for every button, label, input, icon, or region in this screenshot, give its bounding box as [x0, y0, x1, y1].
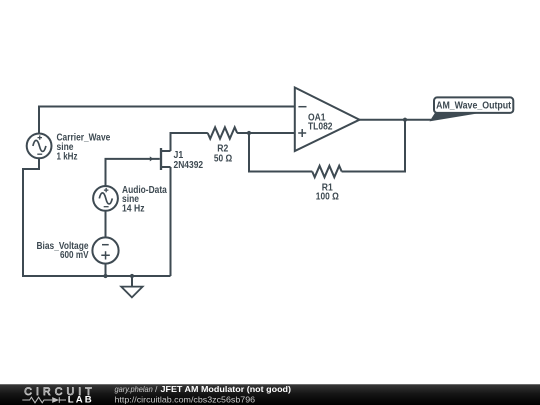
wire: carrier top lead to op-amp inverting input — [39, 107, 295, 134]
Carrier_Wave circle body — [27, 134, 52, 159]
wire: node A drop to feedback row — [249, 133, 312, 172]
node A junction dot (R2 / +input / R1) — [247, 131, 251, 135]
wire: R2 right to op-amp non-inverting input — [237, 132, 295, 134]
svg-text:14 Hz: 14 Hz — [122, 204, 145, 215]
Bias_Voltage plus terminal mark — [101, 251, 110, 259]
voltage source Audio-Data (sine 14 Hz) — [93, 186, 118, 211]
label Bias_Voltage — [37, 241, 89, 261]
svg-text:LAB: LAB — [68, 394, 92, 405]
wire: op-amp output to flag — [360, 119, 432, 121]
gate arrowhead of J1 — [150, 156, 154, 161]
Bias_Voltage circle body — [92, 237, 118, 263]
wire: audio top lead up to JFET gate — [106, 159, 160, 186]
flag AM_Wave_Output pointer — [430, 112, 477, 121]
wire: bottom rail from bias bottom to JFET source column — [106, 264, 171, 276]
OA1 non-inverting input plus mark — [298, 129, 306, 137]
Carrier_Wave minus terminal mark — [37, 153, 42, 155]
node ground junction dot — [130, 274, 134, 278]
Audio-Data plus terminal mark — [104, 188, 109, 192]
Audio-Data sine symbol — [99, 193, 112, 204]
Audio-Data minus terminal mark — [104, 206, 109, 208]
J1 source lead — [162, 166, 171, 168]
op-amp OA1 — [295, 88, 360, 152]
resistor R1 — [312, 166, 342, 177]
footer bar — [0, 384, 540, 405]
svg-text:JFET AM Modulator (not good): JFET AM Modulator (not good) — [161, 384, 292, 394]
svg-text:2N4392: 2N4392 — [174, 160, 204, 171]
label Carrier_Wave — [57, 133, 111, 163]
wire: carrier bottom lead down-left to bottom rail — [23, 158, 106, 276]
transistor J1 (JFET 2N4392) — [161, 148, 171, 170]
label Audio-Data — [122, 185, 167, 214]
Audio-Data circle body — [93, 186, 118, 211]
wire: ground stub — [131, 276, 133, 287]
svg-text:100 Ω: 100 Ω — [316, 192, 339, 203]
wire: R1 right to output column — [342, 120, 405, 172]
OA1 triangle body — [295, 88, 360, 152]
ground — [121, 287, 142, 298]
svg-text:600 mV: 600 mV — [60, 250, 89, 261]
node output junction dot — [403, 118, 407, 122]
wire: JFET source down to bottom rail — [170, 167, 172, 276]
resistor R2 — [208, 127, 238, 138]
J1 drain lead — [162, 150, 171, 152]
svg-text:gary.phelan: gary.phelan — [115, 384, 154, 394]
logo diode triangle — [52, 397, 59, 403]
logo waveform — [22, 397, 66, 403]
Carrier_Wave plus terminal mark — [38, 135, 43, 139]
wire: audio bottom to bias top — [105, 211, 107, 238]
OA1 inverting input minus mark — [298, 106, 306, 108]
flag AM_Wave_Output box — [434, 97, 513, 113]
svg-text:1 kHz: 1 kHz — [57, 151, 78, 162]
Bias_Voltage minus terminal mark — [102, 244, 109, 246]
J1 channel bar — [160, 148, 162, 170]
voltage source Carrier_Wave (sine 1 kHz) — [27, 134, 52, 159]
voltage source Bias_Voltage (DC 600 mV) — [92, 237, 118, 263]
svg-text:AM_Wave_Output: AM_Wave_Output — [436, 101, 512, 112]
svg-text:50 Ω: 50 Ω — [214, 154, 232, 165]
wire: JFET drain up to R2 level — [171, 133, 208, 151]
Carrier_Wave sine symbol — [33, 140, 46, 151]
svg-text:TL082: TL082 — [308, 122, 333, 133]
svg-text:http://circuitlab.com/cbs3zc56: http://circuitlab.com/cbs3zc56sb796 — [115, 394, 256, 404]
node bias bottom junction dot — [103, 274, 107, 278]
